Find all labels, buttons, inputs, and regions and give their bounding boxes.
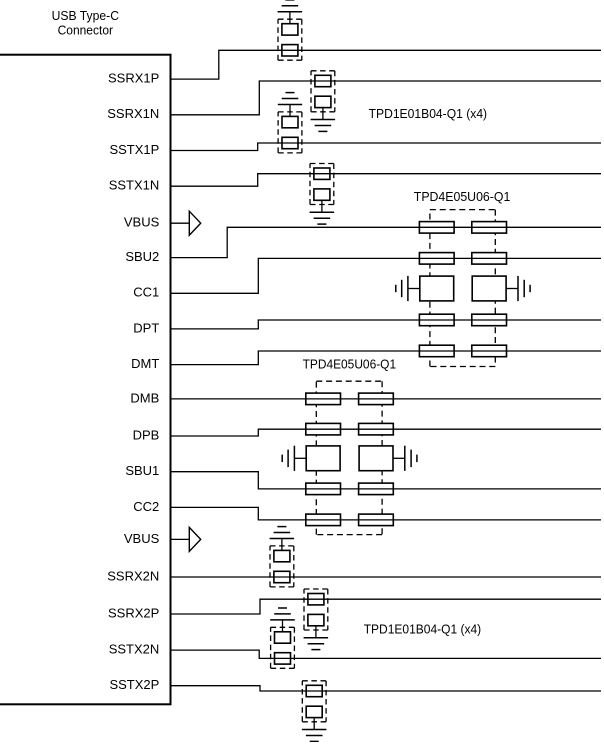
svg-text:DPB: DPB: [133, 427, 160, 442]
svg-text:SSRX1P: SSRX1P: [108, 71, 159, 86]
svg-text:TPD1E01B04-Q1 (x4): TPD1E01B04-Q1 (x4): [364, 622, 482, 637]
svg-text:SBU1: SBU1: [125, 463, 159, 478]
svg-text:SSRX1N: SSRX1N: [107, 106, 159, 121]
svg-text:DMB: DMB: [130, 390, 159, 405]
svg-text:SSRX2N: SSRX2N: [107, 568, 159, 583]
svg-text:TPD4E05U06-Q1: TPD4E05U06-Q1: [303, 356, 397, 371]
svg-text:SSTX1P: SSTX1P: [109, 142, 159, 157]
svg-text:SSTX2P: SSTX2P: [109, 677, 159, 692]
svg-text:TPD1E01B04-Q1 (x4): TPD1E01B04-Q1 (x4): [369, 106, 488, 121]
svg-text:Connector: Connector: [58, 22, 114, 37]
svg-text:DMT: DMT: [131, 356, 159, 371]
svg-text:SBU2: SBU2: [125, 249, 159, 264]
svg-text:CC2: CC2: [133, 499, 159, 514]
svg-text:USB Type-C: USB Type-C: [52, 8, 119, 23]
svg-text:CC1: CC1: [133, 285, 159, 300]
svg-text:TPD4E05U06-Q1: TPD4E05U06-Q1: [414, 189, 511, 204]
svg-text:VBUS: VBUS: [124, 215, 160, 230]
svg-text:DPT: DPT: [133, 320, 159, 335]
svg-text:SSTX1N: SSTX1N: [109, 178, 160, 193]
svg-text:VBUS: VBUS: [124, 531, 160, 546]
svg-text:SSTX2N: SSTX2N: [109, 642, 160, 657]
svg-text:SSRX2P: SSRX2P: [108, 605, 159, 620]
